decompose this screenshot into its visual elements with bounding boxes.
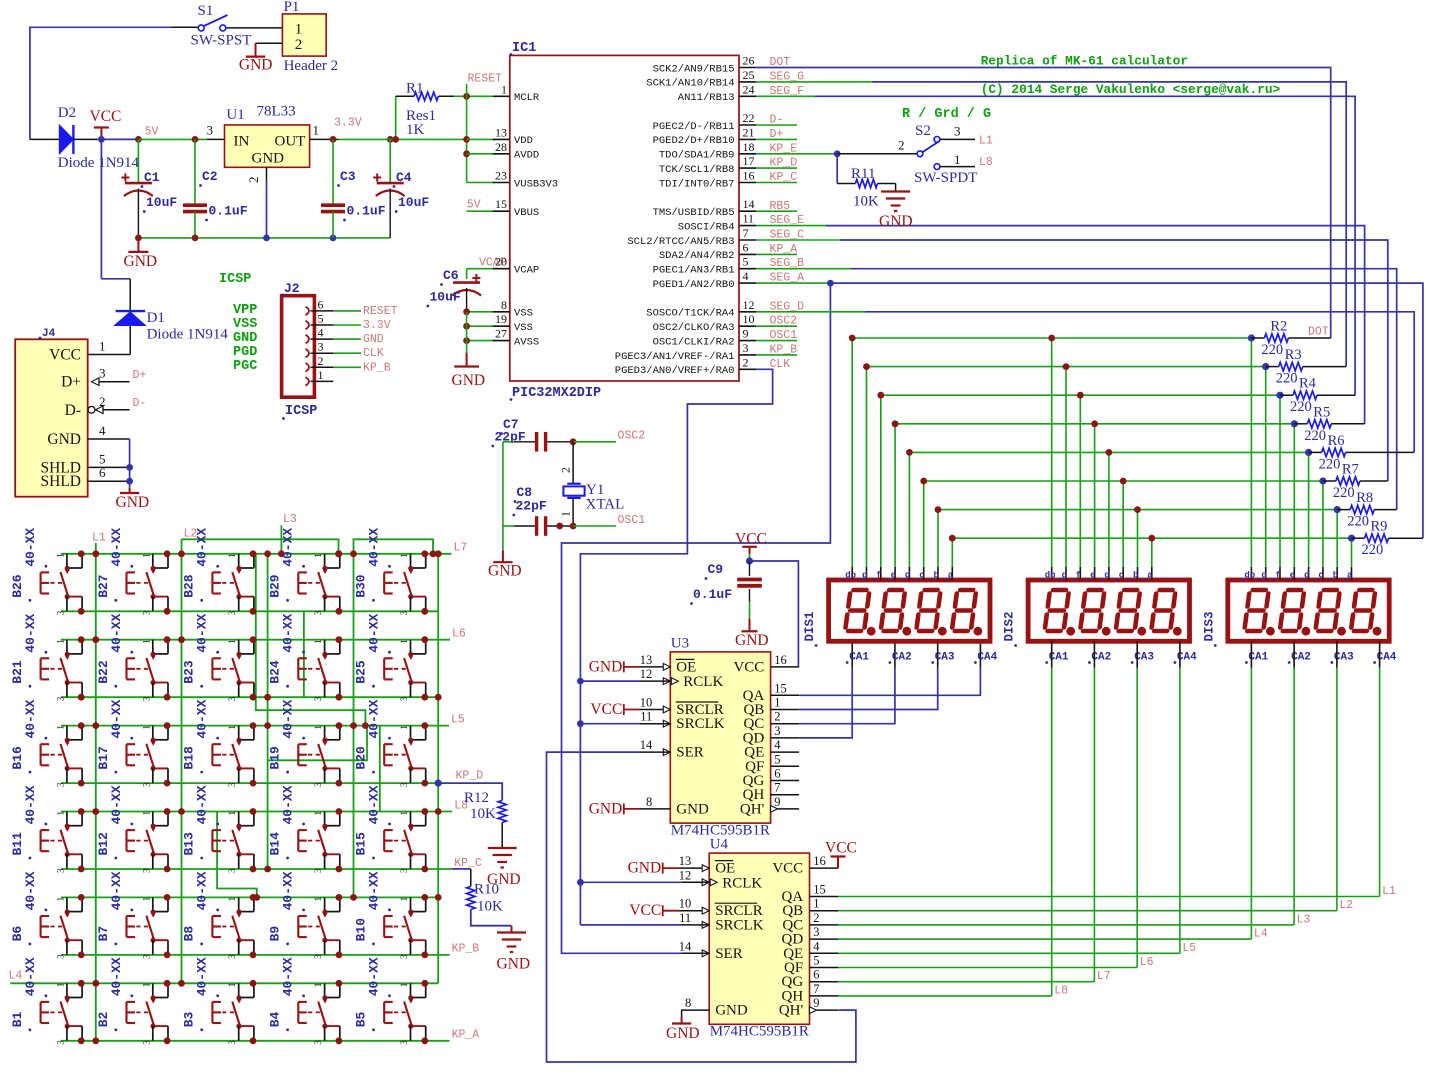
wire SEG_F pin24 [756, 95, 815, 97]
IC U3 M74HC595B1R [670, 652, 770, 823]
resistor R3 220 [1266, 366, 1279, 368]
svg-text:0.1uF: 0.1uF [693, 587, 732, 602]
svg-text:1: 1 [99, 339, 106, 354]
svg-text:L7: L7 [454, 542, 468, 555]
svg-text:40-XX: 40-XX [367, 699, 382, 738]
svg-text:40-XX: 40-XX [109, 957, 124, 996]
svg-text:3: 3 [774, 724, 780, 738]
svg-text:L6: L6 [452, 628, 466, 641]
svg-text:SOSCI/RB4: SOSCI/RB4 [678, 221, 735, 233]
svg-text:6: 6 [318, 297, 324, 311]
switch S1 SW-SPST [225, 27, 282, 29]
resistor R6 220 [1309, 451, 1322, 453]
net 5V rail [135, 136, 142, 143]
IC1 pin 18 TDO/SDA1/RB9 net KP_E [739, 153, 756, 155]
svg-text:g: g [862, 571, 867, 581]
svg-text:40-XX: 40-XX [23, 528, 38, 567]
svg-text:4: 4 [774, 738, 781, 752]
svg-text:B15: B15 [354, 832, 369, 856]
svg-text:L1: L1 [979, 135, 993, 148]
svg-text:B22: B22 [96, 660, 111, 684]
IC1 pin 10 OSC2/CLKO/RA3 net OSC2 [739, 325, 756, 327]
svg-text:3: 3 [813, 925, 819, 939]
pushbutton B9 40-XX [324, 897, 326, 911]
svg-text:40-XX: 40-XX [281, 785, 296, 824]
svg-text:R7: R7 [1342, 462, 1359, 478]
svg-text:Diode 1N914: Diode 1N914 [58, 155, 140, 171]
svg-text:3: 3 [227, 1040, 237, 1045]
svg-text:VCC: VCC [629, 902, 661, 919]
svg-text:40-XX: 40-XX [367, 785, 382, 824]
svg-text:CA2: CA2 [892, 652, 912, 664]
segment net row 1 [852, 337, 1251, 339]
wire D+ pin21 [756, 138, 797, 140]
svg-text:GND: GND [589, 658, 623, 675]
svg-text:1: 1 [55, 983, 65, 988]
svg-text:D+: D+ [61, 374, 81, 391]
keyboard row 5 bottom wire [61, 954, 450, 956]
stub OSC1 pin9 [756, 340, 797, 342]
svg-text:1: 1 [318, 368, 324, 382]
DIS1 segment pin d [908, 567, 910, 580]
wire DIS1 CA3 to U3 [799, 668, 938, 710]
svg-text:40-XX: 40-XX [109, 528, 124, 567]
segment net row 7 [938, 509, 1337, 511]
svg-text:U3: U3 [671, 635, 689, 651]
svg-text:GND: GND [628, 860, 662, 877]
svg-text:1: 1 [399, 639, 409, 644]
gnd wire for C7/C8 [502, 442, 504, 551]
svg-text:e: e [1090, 571, 1095, 581]
svg-text:J2: J2 [284, 281, 300, 296]
svg-text:TDO/SDA1/RB9: TDO/SDA1/RB9 [659, 150, 735, 162]
svg-text:B16: B16 [10, 746, 25, 770]
svg-text:L1: L1 [92, 532, 106, 545]
svg-text:12: 12 [679, 868, 692, 882]
pushbutton B6 40-XX [66, 897, 68, 911]
stub KP_D pin17 [756, 167, 797, 169]
wire U4 QA net L1 [838, 896, 1380, 898]
svg-text:1: 1 [313, 811, 323, 816]
svg-text:B23: B23 [182, 660, 197, 684]
svg-text:SW-SPST: SW-SPST [191, 33, 252, 49]
svg-text:40-XX: 40-XX [367, 613, 382, 652]
DIS3 segment pin a [1351, 567, 1353, 580]
svg-text:3: 3 [55, 610, 65, 615]
IC1 pin 16 TDI/INT0/RB7 net KP_C [739, 182, 756, 184]
wire SEG_D pin12 [756, 311, 865, 313]
svg-text:c: c [919, 571, 924, 581]
svg-text:22pF: 22pF [516, 499, 547, 514]
svg-text:PGD: PGD [233, 345, 257, 360]
svg-text:1: 1 [55, 811, 65, 816]
IC1 pin 15 VBUS [493, 210, 510, 212]
svg-text:RCLK: RCLK [683, 674, 723, 690]
svg-text:B9: B9 [268, 926, 283, 942]
pushbutton B26 40-XX [66, 554, 68, 568]
svg-text:5V: 5V [467, 199, 481, 212]
pushbutton B15 40-XX [410, 812, 412, 826]
svg-text:SHLD: SHLD [41, 473, 81, 490]
U1 pin 2 GND [266, 167, 268, 181]
keyboard jog wire rows2-3 [256, 554, 366, 726]
keyboard column wire col4 [353, 554, 355, 898]
keyboard jog wire above B30 [354, 539, 434, 554]
svg-text:6: 6 [813, 968, 819, 982]
J4 VCC wire to D1 [88, 354, 131, 356]
svg-text:0.1uF: 0.1uF [209, 204, 248, 219]
svg-text:220: 220 [1362, 542, 1384, 558]
IC1 pin 21 PGED2/D+/RB10 net D+ [739, 138, 756, 140]
svg-text:B19: B19 [268, 746, 283, 770]
keyboard row 5 top wire [61, 896, 438, 898]
svg-text:1: 1 [227, 897, 237, 902]
svg-text:1: 1 [55, 639, 65, 644]
svg-text:PGEC2/D-/RB11: PGEC2/D-/RB11 [653, 121, 735, 133]
svg-text:U4: U4 [710, 837, 729, 853]
svg-text:1: 1 [55, 725, 65, 730]
svg-text:2: 2 [774, 710, 780, 724]
svg-text:SOSCO/T1CK/RA4: SOSCO/T1CK/RA4 [646, 308, 734, 320]
svg-text:dp: dp [1244, 571, 1255, 581]
svg-text:2: 2 [813, 911, 819, 925]
svg-text:OSC2/CLKO/RA3: OSC2/CLKO/RA3 [653, 322, 735, 334]
svg-text:3: 3 [313, 610, 323, 615]
svg-text:1: 1 [399, 897, 409, 902]
svg-text:B2: B2 [96, 1011, 111, 1027]
ground symbol for VSS [466, 353, 468, 367]
svg-text:40-XX: 40-XX [195, 871, 210, 910]
svg-text:1: 1 [141, 811, 151, 816]
svg-text:C2: C2 [202, 169, 218, 184]
svg-text:220: 220 [1319, 456, 1341, 472]
svg-text:R9: R9 [1371, 519, 1388, 535]
DIS2 segment pin b [1137, 567, 1139, 580]
resistor R5 220 [1294, 423, 1307, 425]
svg-text:PGED2/D+/RB10: PGED2/D+/RB10 [653, 135, 735, 147]
capacitor C9 0.1uF [749, 561, 751, 576]
svg-text:3: 3 [141, 782, 151, 787]
svg-text:B12: B12 [96, 832, 111, 856]
svg-text:B4: B4 [268, 1011, 283, 1027]
svg-text:GND: GND [497, 956, 531, 973]
svg-text:R3: R3 [1285, 347, 1302, 363]
svg-text:9: 9 [813, 996, 819, 1010]
ground symbol at P1 [255, 43, 257, 56]
svg-text:10uF: 10uF [146, 195, 177, 210]
svg-text:5: 5 [813, 954, 819, 968]
svg-text:R10: R10 [474, 882, 499, 898]
IC1 pin 26 SCK2/AN9/RB15 net DOT [739, 67, 756, 69]
svg-text:SW-SPDT: SW-SPDT [914, 170, 977, 186]
svg-text:GND: GND [252, 151, 285, 167]
svg-text:DIS2: DIS2 [1003, 611, 1017, 641]
svg-text:R11: R11 [851, 166, 875, 182]
capacitor C6 10uF at VCAP [467, 268, 495, 270]
svg-text:P1: P1 [284, 0, 300, 15]
svg-text:GND: GND [239, 57, 273, 74]
resistor R8 220 [1337, 509, 1350, 511]
svg-text:3: 3 [313, 954, 323, 959]
wire SEG_A to U4 SER [562, 283, 831, 953]
svg-text:7: 7 [813, 982, 819, 996]
segment net row 8 [952, 537, 1351, 539]
wire DIS1 CA2 to U3 [799, 668, 895, 724]
svg-text:Header 2: Header 2 [284, 58, 339, 74]
svg-text:B21: B21 [10, 660, 25, 684]
svg-text:B6: B6 [10, 926, 25, 942]
wire KP_E pin18 to S2 [756, 153, 837, 155]
DIS1 segment pin g [866, 567, 868, 580]
wire SEG_B pin5 [756, 268, 851, 270]
svg-text:40-XX: 40-XX [23, 957, 38, 996]
svg-text:QH': QH' [779, 1003, 804, 1019]
svg-text:3: 3 [227, 782, 237, 787]
svg-text:B7: B7 [96, 926, 111, 942]
DIS3 segment pin d [1308, 567, 1310, 580]
keyboard row 2 bottom wire [61, 696, 438, 698]
svg-text:C1: C1 [144, 170, 160, 185]
ground under C9 [749, 618, 751, 631]
U3 RCLK/SRCLK wires from CLK bus [580, 680, 640, 682]
IC1 pin 22 PGEC2/D-/RB11 net D- [739, 124, 756, 126]
IC1 pin 11 SOSCI/RB4 net SEG_E [739, 225, 756, 227]
DIS2 segment pin e [1094, 567, 1096, 580]
svg-text:SRCLK: SRCLK [715, 917, 764, 933]
svg-text:1: 1 [399, 553, 409, 558]
svg-text:d: d [1104, 571, 1109, 581]
svg-text:27: 27 [495, 327, 507, 341]
svg-text:1: 1 [399, 811, 409, 816]
svg-text:1: 1 [774, 696, 780, 710]
svg-text:10K: 10K [477, 899, 503, 915]
keyboard row 2 top wire [61, 639, 450, 641]
ground at R12 [488, 847, 517, 849]
svg-text:15: 15 [495, 197, 507, 211]
svg-text:VCC: VCC [733, 659, 764, 675]
stub KP_C pin16 [756, 182, 797, 184]
svg-text:OSC2: OSC2 [618, 430, 646, 443]
U1 pin 3 [207, 138, 225, 140]
net KP_C pulldown resistor R10 10K [452, 868, 471, 870]
svg-text:23: 23 [495, 169, 507, 183]
svg-text:PGEC1/AN3/RB1: PGEC1/AN3/RB1 [653, 265, 735, 277]
wire CLK pin2 to shift registers [580, 369, 772, 925]
svg-text:IN: IN [234, 134, 250, 150]
pushbutton B13 40-XX [238, 812, 240, 826]
svg-text:C3: C3 [340, 169, 356, 184]
svg-text:26: 26 [743, 54, 755, 68]
svg-text:a: a [1347, 571, 1353, 581]
svg-text:220: 220 [1304, 428, 1326, 444]
ground symbol under C1 [137, 238, 139, 252]
U4 VCC power symbol [837, 857, 839, 869]
svg-text:40-XX: 40-XX [281, 957, 296, 996]
svg-text:40-XX: 40-XX [23, 699, 38, 738]
svg-text:B28: B28 [182, 574, 197, 598]
U1 pin 1 [310, 138, 338, 140]
ground at R11 [895, 184, 897, 192]
svg-text:DIS3: DIS3 [1202, 611, 1216, 641]
svg-text:c: c [1119, 571, 1124, 581]
svg-text:1: 1 [227, 725, 237, 730]
svg-text:5: 5 [743, 255, 749, 269]
keyboard column wire col3 [267, 554, 269, 869]
svg-text:XTAL: XTAL [586, 497, 625, 513]
svg-text:4: 4 [318, 326, 324, 340]
IC1 pin 14 TMS/USBID/RB5 net RB5 [739, 210, 756, 212]
wire U4 QG net L7 [838, 981, 1094, 983]
display DIS1 4-digit 7-segment [829, 580, 990, 641]
svg-text:16: 16 [743, 169, 755, 183]
svg-text:GND: GND [735, 632, 769, 649]
wire SEG_E pin11 [756, 225, 826, 227]
pushbutton B24 40-XX [324, 640, 326, 654]
svg-text:1: 1 [313, 553, 323, 558]
svg-text:VCAP: VCAP [514, 265, 539, 277]
stub KP_B pin3 [756, 354, 797, 356]
svg-text:e: e [1290, 571, 1295, 581]
svg-text:8: 8 [501, 298, 507, 312]
svg-text:L8: L8 [979, 156, 993, 169]
svg-text:3.3V: 3.3V [334, 117, 362, 130]
svg-text:3.3V: 3.3V [363, 319, 391, 332]
svg-text:ICSP: ICSP [285, 404, 317, 419]
svg-text:CA4: CA4 [977, 652, 997, 664]
svg-text:1: 1 [55, 553, 65, 558]
svg-text:GND: GND [879, 213, 913, 230]
svg-text:4: 4 [813, 939, 820, 953]
svg-text:20: 20 [495, 255, 507, 269]
display DIS2 4-digit 7-segment [1028, 580, 1189, 641]
DIS2 segment pin d [1108, 567, 1110, 580]
stub KP_A pin6 [756, 253, 797, 255]
IC1 pin 8 VSS [493, 311, 510, 313]
resistor R2 220 [1251, 337, 1264, 339]
pushbutton B18 40-XX [238, 726, 240, 740]
pushbutton B2 40-XX [152, 983, 154, 997]
svg-text:(C) 2014 Serge Vakulenko <serg: (C) 2014 Serge Vakulenko <serge@vak.ru> [981, 82, 1281, 97]
svg-text:DOT: DOT [1308, 326, 1329, 339]
wire SEG_G pin25 [756, 81, 872, 83]
svg-text:78L33: 78L33 [257, 104, 296, 120]
svg-text:L3: L3 [283, 513, 297, 526]
svg-text:VPP: VPP [233, 303, 257, 318]
keyboard column net L3 [280, 526, 282, 554]
svg-text:1: 1 [559, 511, 573, 517]
svg-text:21: 21 [743, 125, 755, 139]
svg-text:B13: B13 [182, 832, 197, 856]
wire DOT pin26 [756, 68, 1331, 339]
crystal Y1 XTAL [572, 442, 574, 484]
IC1 pin 3 PGEC3/AN1/VREF-/RA1 net KP_B [739, 354, 756, 356]
diode D1 1N914 [129, 279, 131, 311]
pushbutton B14 40-XX [324, 812, 326, 826]
svg-text:3: 3 [399, 696, 409, 701]
J2 pin 3 [306, 349, 310, 358]
svg-text:L8: L8 [1054, 984, 1068, 997]
svg-text:R6: R6 [1328, 433, 1345, 449]
svg-text:a: a [1147, 571, 1153, 581]
svg-text:AVSS: AVSS [514, 336, 539, 348]
svg-text:4: 4 [743, 269, 749, 283]
pushbutton B25 40-XX [410, 640, 412, 654]
DIS3 segment pin e [1293, 567, 1295, 580]
IC1 pin 28 AVDD [493, 153, 510, 155]
svg-text:B30: B30 [354, 574, 369, 598]
svg-text:22: 22 [743, 111, 755, 125]
svg-text:B24: B24 [268, 660, 283, 684]
svg-text:TMS/USBID/RB5: TMS/USBID/RB5 [653, 207, 735, 219]
svg-text:1: 1 [313, 897, 323, 902]
pushbutton B4 40-XX [324, 983, 326, 997]
segment net row 3 [881, 394, 1280, 396]
svg-text:3: 3 [99, 366, 106, 381]
svg-text:3: 3 [141, 1040, 151, 1045]
pushbutton B22 40-XX [152, 640, 154, 654]
svg-text:9: 9 [774, 795, 780, 809]
IC1 pin 4 PGED1/AN2/RB0 net SEG_A [739, 282, 756, 284]
svg-text:CA1: CA1 [849, 652, 869, 664]
pushbutton B19 40-XX [324, 726, 326, 740]
keyboard row 6 top wire [10, 982, 438, 984]
svg-text:5: 5 [318, 312, 324, 326]
svg-text:1: 1 [141, 897, 151, 902]
J4 GND/SHLD wires [88, 438, 130, 440]
svg-text:3: 3 [743, 341, 749, 355]
svg-text:a: a [948, 571, 954, 581]
DIS1 segment pin e [894, 567, 896, 580]
svg-text:VCC: VCC [90, 108, 122, 125]
keyboard row 4 top wire [61, 811, 452, 813]
wire VCC down to D1 [100, 139, 102, 278]
wire U4 QE net L5 [838, 952, 1180, 954]
svg-text:3: 3 [227, 610, 237, 615]
keyboard row 4 bottom wire [61, 868, 452, 870]
IC1 pin 9 OSC1/CLKI/RA2 net OSC1 [739, 340, 756, 342]
svg-text:7: 7 [743, 226, 749, 240]
U3 gnd pin 8 wire [640, 808, 670, 810]
svg-text:25: 25 [743, 68, 755, 82]
svg-text:f: f [876, 571, 881, 581]
svg-text:AVDD: AVDD [514, 150, 539, 162]
svg-text:17: 17 [743, 154, 755, 168]
segment net row 6 [924, 480, 1323, 482]
svg-text:VCC: VCC [735, 531, 767, 548]
svg-text:40-XX: 40-XX [23, 613, 38, 652]
pin 2 wire of P1 [256, 42, 283, 44]
svg-text:40-XX: 40-XX [109, 699, 124, 738]
svg-text:L3: L3 [1297, 913, 1311, 926]
svg-text:PGC: PGC [233, 359, 257, 374]
svg-text:1: 1 [141, 983, 151, 988]
svg-text:3: 3 [399, 868, 409, 873]
IC1 pin 5 PGEC1/AN3/RB1 net SEG_B [739, 268, 756, 270]
svg-text:12: 12 [743, 298, 755, 312]
svg-text:dp: dp [1045, 571, 1056, 581]
svg-text:OSC1: OSC1 [618, 514, 646, 527]
svg-text:D2: D2 [58, 105, 76, 121]
svg-text:3: 3 [227, 868, 237, 873]
svg-text:1: 1 [227, 639, 237, 644]
keyboard row 3 top wire [61, 725, 449, 727]
svg-text:VSS: VSS [514, 308, 533, 320]
svg-text:L5: L5 [451, 713, 465, 726]
svg-text:6: 6 [774, 767, 780, 781]
svg-text:3: 3 [227, 696, 237, 701]
svg-text:13: 13 [640, 653, 653, 667]
svg-text:2: 2 [898, 138, 905, 153]
